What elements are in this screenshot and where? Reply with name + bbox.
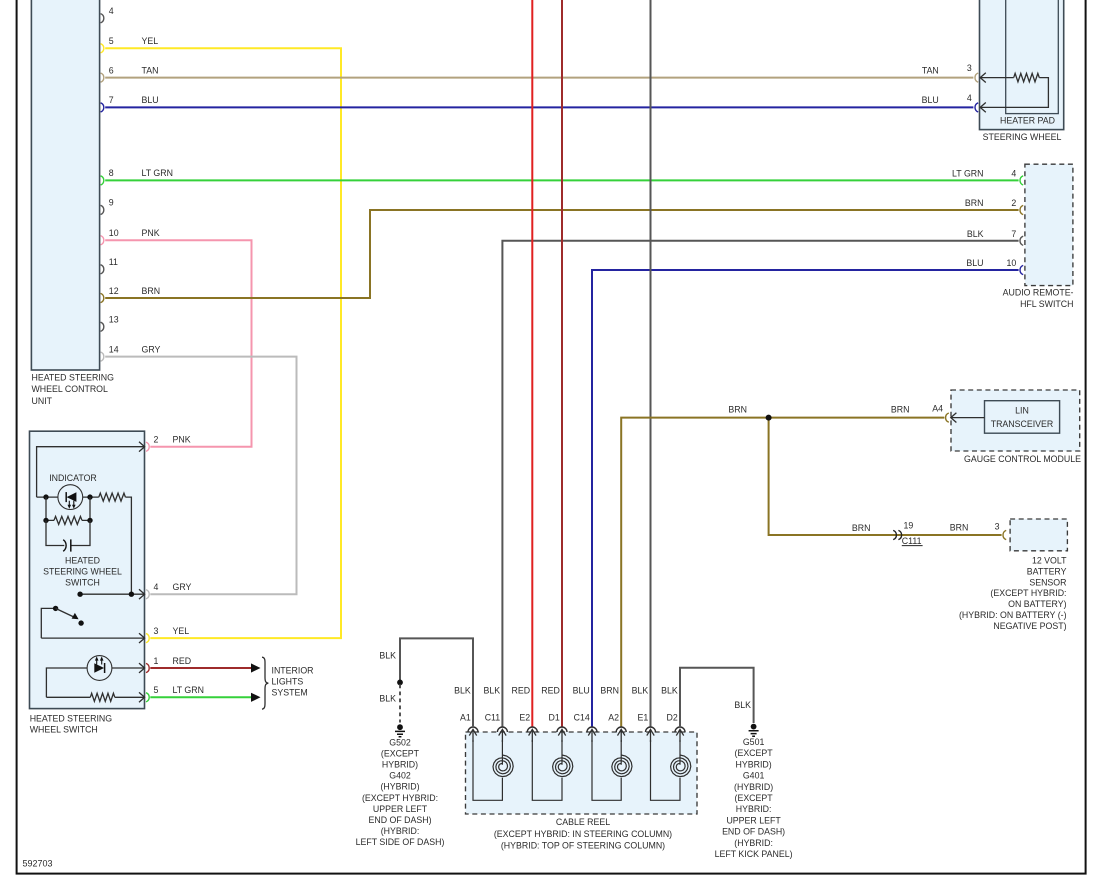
- 12 volt battery sensor box: [1010, 519, 1067, 551]
- switch S1 blade: [41, 606, 84, 638]
- svg-text:3: 3: [995, 522, 1000, 532]
- svg-text:592703: 592703: [23, 859, 53, 869]
- svg-text:8: 8: [109, 168, 114, 178]
- svg-text:BRN: BRN: [142, 286, 161, 296]
- svg-text:(EXCEPT: (EXCEPT: [381, 748, 420, 758]
- svg-text:(EXCEPT: (EXCEPT: [735, 748, 774, 758]
- svg-text:ON BATTERY): ON BATTERY): [1008, 599, 1066, 609]
- HEATED STEERING WHEEL SWITCH inner label: [43, 556, 122, 588]
- wire BLK: to cable reel E1: [650, 0, 652, 727]
- svg-text:TRANSCEIVER: TRANSCEIVER: [991, 419, 1054, 429]
- svg-text:TAN: TAN: [142, 65, 159, 75]
- wire BLU: control unit pin 7 to steering wheel pin 4: [105, 106, 973, 108]
- svg-text:BLK: BLK: [632, 686, 649, 696]
- wire TAN: control unit pin 6 to steering wheel pin 3: [105, 77, 973, 79]
- resistor R2 row: [46, 497, 90, 520]
- ground G502: [397, 724, 403, 730]
- control unit pin 14: [101, 344, 161, 361]
- svg-text:WHEEL SWITCH: WHEEL SWITCH: [30, 725, 98, 735]
- gauge module pin A4 connector: [946, 413, 985, 423]
- cable reel pin A2: [600, 686, 626, 742]
- svg-text:NEGATIVE POST): NEGATIVE POST): [993, 621, 1066, 631]
- svg-text:END OF DASH): END OF DASH): [722, 827, 785, 837]
- svg-text:BRN: BRN: [600, 686, 619, 696]
- svg-text:4: 4: [109, 6, 114, 16]
- svg-text:(HYBRID: ON BATTERY (-): (HYBRID: ON BATTERY (-): [959, 610, 1067, 620]
- svg-text:6: 6: [109, 65, 114, 75]
- svg-text:C14: C14: [574, 712, 590, 722]
- heater pad resistor and loop: [980, 77, 1013, 79]
- audio remote pin 2: [965, 198, 1023, 215]
- svg-text:LT GRN: LT GRN: [952, 168, 983, 178]
- steering wheel pin 3 connector: [922, 63, 986, 82]
- svg-text:RED: RED: [512, 686, 531, 696]
- svg-text:7: 7: [1011, 229, 1016, 239]
- wire BLU: audio remote pin 10 to cable reel C14: [592, 270, 1019, 727]
- svg-text:12 VOLT: 12 VOLT: [1032, 556, 1067, 566]
- svg-text:BLK: BLK: [661, 686, 678, 696]
- wire YEL: control unit pin 5 to switch pin 3: [105, 48, 341, 638]
- svg-text:4: 4: [154, 582, 159, 592]
- wire GRY: control unit pin 14 to switch pin 4: [105, 357, 296, 595]
- svg-text:HEATED STEERING: HEATED STEERING: [32, 372, 115, 382]
- svg-text:BRN: BRN: [852, 523, 871, 533]
- svg-text:BLK: BLK: [734, 700, 751, 710]
- junction dot on BRN wire: [766, 415, 772, 421]
- svg-text:(EXCEPT: (EXCEPT: [735, 793, 774, 803]
- svg-text:AUDIO REMOTE-: AUDIO REMOTE-: [1003, 287, 1074, 297]
- audio remote pin 4: [952, 168, 1023, 185]
- svg-text:UPPER LEFT: UPPER LEFT: [373, 804, 428, 814]
- svg-text:(EXCEPT HYBRID:: (EXCEPT HYBRID:: [990, 588, 1066, 598]
- svg-text:HYBRID): HYBRID): [382, 760, 418, 770]
- svg-text:LIN: LIN: [1015, 406, 1029, 416]
- svg-text:A1: A1: [460, 712, 471, 722]
- audio remote pin 7: [967, 229, 1023, 246]
- control unit pin 5: [101, 36, 159, 53]
- svg-text:HEATER PAD: HEATER PAD: [1000, 116, 1055, 126]
- resistor R1: [99, 493, 126, 501]
- control unit pin 8: [101, 168, 173, 185]
- svg-text:CABLE REEL: CABLE REEL: [556, 817, 610, 827]
- cable reel pin E1: [632, 686, 656, 742]
- cable reel pin D2: [661, 686, 685, 742]
- svg-text:BRN: BRN: [728, 405, 747, 415]
- switch pin 4 connector: [146, 582, 192, 599]
- svg-text:2: 2: [154, 435, 159, 445]
- svg-text:2: 2: [1011, 198, 1016, 208]
- svg-text:HEATED: HEATED: [65, 556, 100, 566]
- svg-text:BLU: BLU: [573, 686, 590, 696]
- svg-text:(HYBRID:: (HYBRID:: [734, 838, 773, 848]
- svg-text:BLU: BLU: [142, 95, 159, 105]
- svg-text:SWITCH: SWITCH: [65, 577, 100, 587]
- wire RED: to cable reel E2: [531, 0, 533, 727]
- svg-text:BLU: BLU: [966, 258, 983, 268]
- interior lights system brace: [262, 657, 268, 709]
- svg-text:4: 4: [967, 93, 972, 103]
- cable reel pin C14: [573, 686, 597, 742]
- svg-text:19: 19: [904, 521, 914, 531]
- wire BRN: control unit pin 12 to audio remote pin 2: [105, 210, 1018, 298]
- svg-text:GRY: GRY: [142, 344, 161, 354]
- svg-text:C111: C111: [902, 536, 922, 546]
- control unit pin 9: [101, 198, 114, 215]
- switch pin 2 connector: [146, 435, 191, 452]
- svg-text:YEL: YEL: [173, 626, 190, 636]
- svg-text:G401: G401: [743, 771, 765, 781]
- steering wheel box: [980, 0, 1064, 142]
- svg-text:RED: RED: [173, 656, 192, 666]
- svg-text:1: 1: [154, 656, 159, 666]
- wire BLK: audio remote pin 7 to cable reel C11: [502, 241, 1018, 727]
- svg-text:YEL: YEL: [142, 36, 159, 46]
- interior lights system label: [272, 666, 314, 698]
- svg-text:5: 5: [154, 685, 159, 695]
- cable reel pin E2: [512, 686, 538, 742]
- svg-text:12: 12: [109, 286, 119, 296]
- resistor R3 on pin 5 row: [46, 696, 90, 698]
- LED D2: [87, 656, 112, 681]
- indicator LED D1: [58, 485, 83, 510]
- capacitor C1: [46, 520, 90, 545]
- wire BLK: cable reel D2 to ground G501: [680, 668, 754, 728]
- svg-text:LIGHTS: LIGHTS: [272, 677, 304, 687]
- cable reel pin D1: [541, 686, 567, 742]
- wire BRN: cable reel A2 to gauge control module A4: [621, 418, 944, 728]
- svg-text:PNK: PNK: [173, 435, 191, 445]
- wire RED: to cable reel D1: [561, 0, 563, 727]
- svg-text:13: 13: [109, 315, 119, 325]
- svg-text:(EXCEPT HYBRID: IN STEERING CO: (EXCEPT HYBRID: IN STEERING COLUMN): [494, 829, 672, 839]
- svg-text:SYSTEM: SYSTEM: [272, 688, 308, 698]
- switch pin 3 internal wire: [41, 637, 144, 639]
- heater pad box: [1000, 0, 1058, 126]
- svg-text:14: 14: [109, 344, 119, 354]
- svg-text:BRN: BRN: [891, 405, 910, 415]
- battery sensor pin 3 connector: [1003, 530, 1006, 539]
- battery sensor label: [959, 556, 1067, 631]
- connector C111 arcs: [893, 530, 901, 539]
- svg-text:SENSOR: SENSOR: [1029, 577, 1066, 587]
- svg-text:HYBRID:: HYBRID:: [736, 804, 772, 814]
- svg-text:GRY: GRY: [173, 582, 192, 592]
- svg-text:A4: A4: [932, 403, 943, 413]
- svg-text:LEFT SIDE OF DASH): LEFT SIDE OF DASH): [356, 837, 445, 847]
- audio remote pin 10: [966, 258, 1023, 275]
- cable reel coil L3: [592, 740, 632, 800]
- svg-text:HFL SWITCH: HFL SWITCH: [1020, 299, 1073, 309]
- svg-text:D2: D2: [667, 712, 678, 722]
- svg-text:BATTERY: BATTERY: [1027, 566, 1067, 576]
- switch pin 3 connector: [146, 626, 189, 643]
- svg-text:BLU: BLU: [922, 95, 939, 105]
- svg-text:PNK: PNK: [142, 228, 160, 238]
- cable reel box: [466, 732, 698, 851]
- svg-text:BLK: BLK: [967, 229, 984, 239]
- ground G502 label: [356, 737, 445, 847]
- wire LT GRN: control unit pin 8 to audio remote pin 4: [105, 179, 1018, 181]
- steering wheel pin 4 connector: [922, 93, 986, 112]
- svg-text:INTERIOR: INTERIOR: [272, 666, 314, 676]
- control unit pin 6: [101, 65, 159, 82]
- cable reel coil L1: [473, 740, 513, 800]
- svg-text:G502: G502: [389, 737, 411, 747]
- control unit pin 4: [101, 6, 114, 23]
- wire PNK: control unit pin 10 to switch pin 2: [105, 240, 251, 447]
- svg-text:3: 3: [967, 63, 972, 73]
- svg-text:C11: C11: [485, 712, 501, 722]
- svg-text:UPPER LEFT: UPPER LEFT: [726, 815, 781, 825]
- wire BRN: junction branch to 12 volt battery sensor pin 3: [769, 418, 1002, 535]
- svg-text:(HYBRID): (HYBRID): [380, 782, 419, 792]
- switch pin 1 internal wire: [46, 668, 144, 697]
- control unit pin 10: [101, 228, 160, 245]
- svg-text:BLK: BLK: [379, 651, 396, 661]
- svg-text:(HYBRID): (HYBRID): [734, 782, 773, 792]
- svg-text:5: 5: [109, 36, 114, 46]
- gauge control module box: [951, 390, 1081, 464]
- svg-text:9: 9: [109, 198, 114, 208]
- cable reel pin A1: [454, 686, 478, 742]
- svg-text:HYBRID): HYBRID): [736, 759, 772, 769]
- svg-text:STEERING WHEEL: STEERING WHEEL: [43, 566, 122, 576]
- svg-text:7: 7: [109, 95, 114, 105]
- svg-text:10: 10: [109, 228, 119, 238]
- svg-text:3: 3: [154, 626, 159, 636]
- wire BLK: cable reel A1 to ground G502: [400, 638, 473, 727]
- svg-text:TAN: TAN: [922, 65, 939, 75]
- svg-text:D1: D1: [549, 712, 560, 722]
- svg-text:11: 11: [109, 257, 118, 267]
- audio remote HFL switch box: [1003, 164, 1074, 309]
- svg-text:LEFT KICK PANEL): LEFT KICK PANEL): [715, 849, 793, 859]
- svg-text:BLK: BLK: [379, 694, 396, 704]
- svg-text:STEERING WHEEL: STEERING WHEEL: [983, 132, 1062, 142]
- svg-text:A2: A2: [608, 712, 619, 722]
- switch pin 2 internal wire: [37, 447, 145, 497]
- svg-text:HEATED STEERING: HEATED STEERING: [30, 713, 113, 723]
- svg-text:WHEEL CONTROL: WHEEL CONTROL: [32, 384, 109, 394]
- cable reel pin C11: [484, 686, 508, 742]
- svg-text:(EXCEPT HYBRID:: (EXCEPT HYBRID:: [362, 793, 438, 803]
- control unit pin 12: [101, 286, 160, 303]
- wire RED to interior lights system: [150, 667, 252, 669]
- svg-text:4: 4: [1011, 168, 1016, 178]
- ground G501: [751, 724, 757, 730]
- svg-text:10: 10: [1007, 258, 1017, 268]
- svg-text:E1: E1: [638, 712, 649, 722]
- svg-text:INDICATOR: INDICATOR: [49, 473, 97, 483]
- svg-text:BLK: BLK: [454, 686, 471, 696]
- heated steering wheel switch box: [30, 431, 145, 735]
- svg-text:BRN: BRN: [950, 522, 969, 532]
- switch pin 5 connector: [146, 685, 204, 702]
- heated steering wheel control unit U1 box: [31, 0, 114, 406]
- svg-text:GAUGE CONTROL MODULE: GAUGE CONTROL MODULE: [964, 454, 1081, 464]
- cable reel coil L2: [532, 740, 573, 800]
- svg-text:RED: RED: [541, 686, 560, 696]
- svg-text:END OF DASH): END OF DASH): [368, 815, 431, 825]
- control unit pin 11: [101, 257, 118, 274]
- svg-text:BRN: BRN: [965, 198, 984, 208]
- svg-text:E2: E2: [519, 712, 530, 722]
- ground G501 label: [715, 737, 793, 859]
- svg-text:(HYBRID: TOP OF STEERING COLUM: (HYBRID: TOP OF STEERING COLUMN): [501, 841, 665, 851]
- svg-text:G501: G501: [743, 737, 765, 747]
- indicator LED row: [37, 496, 99, 498]
- svg-text:LT GRN: LT GRN: [173, 685, 204, 695]
- cable reel coil L4: [651, 740, 691, 800]
- LIN transceiver box: [985, 401, 1060, 434]
- svg-text:(HYBRID:: (HYBRID:: [381, 826, 420, 836]
- switch pin 1 connector: [146, 656, 191, 673]
- svg-text:BLK: BLK: [484, 686, 501, 696]
- switch pin 4 internal wire: [80, 593, 144, 595]
- control unit pin 13: [101, 315, 119, 332]
- svg-text:LT GRN: LT GRN: [142, 168, 173, 178]
- control unit pin 7: [101, 95, 159, 112]
- wire LT GRN to interior lights system: [150, 696, 252, 698]
- svg-text:G402: G402: [389, 771, 411, 781]
- svg-text:UNIT: UNIT: [32, 396, 53, 406]
